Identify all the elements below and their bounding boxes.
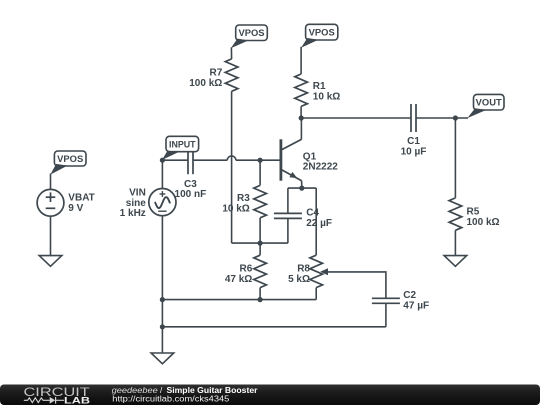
svg-text:10 µF: 10 µF <box>401 147 427 158</box>
capacitor C4 22 µF <box>274 188 332 243</box>
node VOUT junction <box>453 115 458 120</box>
svg-text:C2: C2 <box>403 290 416 301</box>
net flag VOUT <box>467 94 504 118</box>
svg-text:1 kHz: 1 kHz <box>120 208 146 219</box>
svg-text:2N2222: 2N2222 <box>303 161 338 172</box>
wire VBAT flag to source <box>50 174 52 190</box>
voltage source VBAT 9 V <box>37 189 95 216</box>
capacitor C1 10 µF <box>401 104 427 158</box>
node R6 bottom junction <box>258 297 263 302</box>
svg-text:http://circuitlab.com/cks4345: http://circuitlab.com/cks4345 <box>112 395 230 404</box>
svg-text:INPUT: INPUT <box>169 138 196 149</box>
net flag INPUT <box>162 136 199 160</box>
svg-text:R5: R5 <box>467 207 480 218</box>
CircuitLab logo <box>24 385 91 405</box>
svg-text:geedeebee: geedeebee <box>112 386 159 395</box>
resistor R3 10 kΩ <box>222 160 266 243</box>
ground (below R5) <box>444 256 467 267</box>
svg-text:47 µF: 47 µF <box>403 301 429 312</box>
wire bias rail <box>232 242 288 244</box>
svg-text:C1: C1 <box>407 136 420 147</box>
svg-text:100 kΩ: 100 kΩ <box>467 217 500 228</box>
wire hop to base <box>236 159 280 161</box>
ground (below VBAT) <box>39 256 62 267</box>
svg-text:R6: R6 <box>240 263 253 274</box>
resistor R7 100 kΩ <box>189 59 238 91</box>
wire R5 to ground <box>454 230 456 256</box>
svg-text:VBAT: VBAT <box>68 192 94 203</box>
footer bar <box>0 385 540 405</box>
wire VPOS flag to R1 <box>300 47 302 74</box>
resistor R1 10 kΩ <box>295 74 340 106</box>
wire input node to C3 <box>162 159 188 161</box>
svg-text:10 kΩ: 10 kΩ <box>313 91 340 102</box>
transistor Q1 2N2222 <box>281 118 338 188</box>
capacitor C2 47 µF <box>372 290 429 327</box>
svg-text:VOUT: VOUT <box>476 97 502 108</box>
svg-text:VPOS: VPOS <box>238 27 264 38</box>
net flag VPOS (at R1) <box>301 24 338 48</box>
wire VIN top <box>161 160 163 188</box>
wire VIN bottom column <box>161 216 163 354</box>
node rail B left junction <box>160 297 165 302</box>
wire VBAT to ground <box>50 216 52 256</box>
wire emitter node <box>288 187 316 189</box>
wire R7 column down to bias rail <box>231 91 233 243</box>
svg-text:5 kΩ: 5 kΩ <box>288 274 310 285</box>
svg-text:10 kΩ: 10 kΩ <box>222 203 249 214</box>
voltage source VIN sine 1 kHz <box>120 188 176 220</box>
node bias rail junction <box>258 241 263 246</box>
wire R8 wiper to C2 <box>328 272 386 298</box>
resistor R8 5 kΩ (pot) <box>288 255 328 299</box>
wire VPOS flag to R7 <box>230 47 232 59</box>
svg-text:VPOS: VPOS <box>309 27 335 38</box>
svg-text:22 µF: 22 µF <box>306 218 332 229</box>
net flag VPOS (at R7) <box>231 25 267 48</box>
node rail C left junction <box>160 324 165 329</box>
svg-text:LAB: LAB <box>64 394 90 405</box>
wire C3 to hop <box>193 159 227 161</box>
svg-text:100 kΩ: 100 kΩ <box>189 78 222 89</box>
svg-text:Simple Guitar Booster: Simple Guitar Booster <box>167 386 258 395</box>
node base/R3 junction <box>258 158 263 163</box>
capacitor C3 100 nF <box>175 146 207 200</box>
wire C1 to VOUT node <box>416 117 468 119</box>
resistor R6 47 kΩ <box>225 243 267 300</box>
wire hop over R7 column <box>227 156 236 160</box>
svg-text:R7: R7 <box>210 68 223 79</box>
footer credit text <box>112 386 258 404</box>
wire emitter to R8 <box>315 188 317 255</box>
node INPUT junction <box>160 158 165 163</box>
node emitter junction <box>299 186 304 191</box>
wire VOUT node to R5 <box>454 118 456 198</box>
svg-text:9 V: 9 V <box>68 203 83 214</box>
svg-text:R3: R3 <box>237 193 250 204</box>
node collector junction <box>299 115 304 120</box>
svg-text:100 nF: 100 nF <box>175 189 207 200</box>
ground (below VIN column) <box>151 353 174 364</box>
svg-text:47 kΩ: 47 kΩ <box>225 274 252 285</box>
net flag VPOS (at VBAT) <box>50 151 86 175</box>
resistor R5 100 kΩ <box>449 198 499 230</box>
svg-text:R8: R8 <box>297 263 310 274</box>
wire rail C <box>162 326 386 328</box>
svg-text:VPOS: VPOS <box>57 153 83 164</box>
wire R1 to collector node <box>300 106 302 118</box>
svg-text:C4: C4 <box>306 208 319 219</box>
wire collector to C1 <box>301 117 411 119</box>
wire ground rail B <box>162 299 316 301</box>
